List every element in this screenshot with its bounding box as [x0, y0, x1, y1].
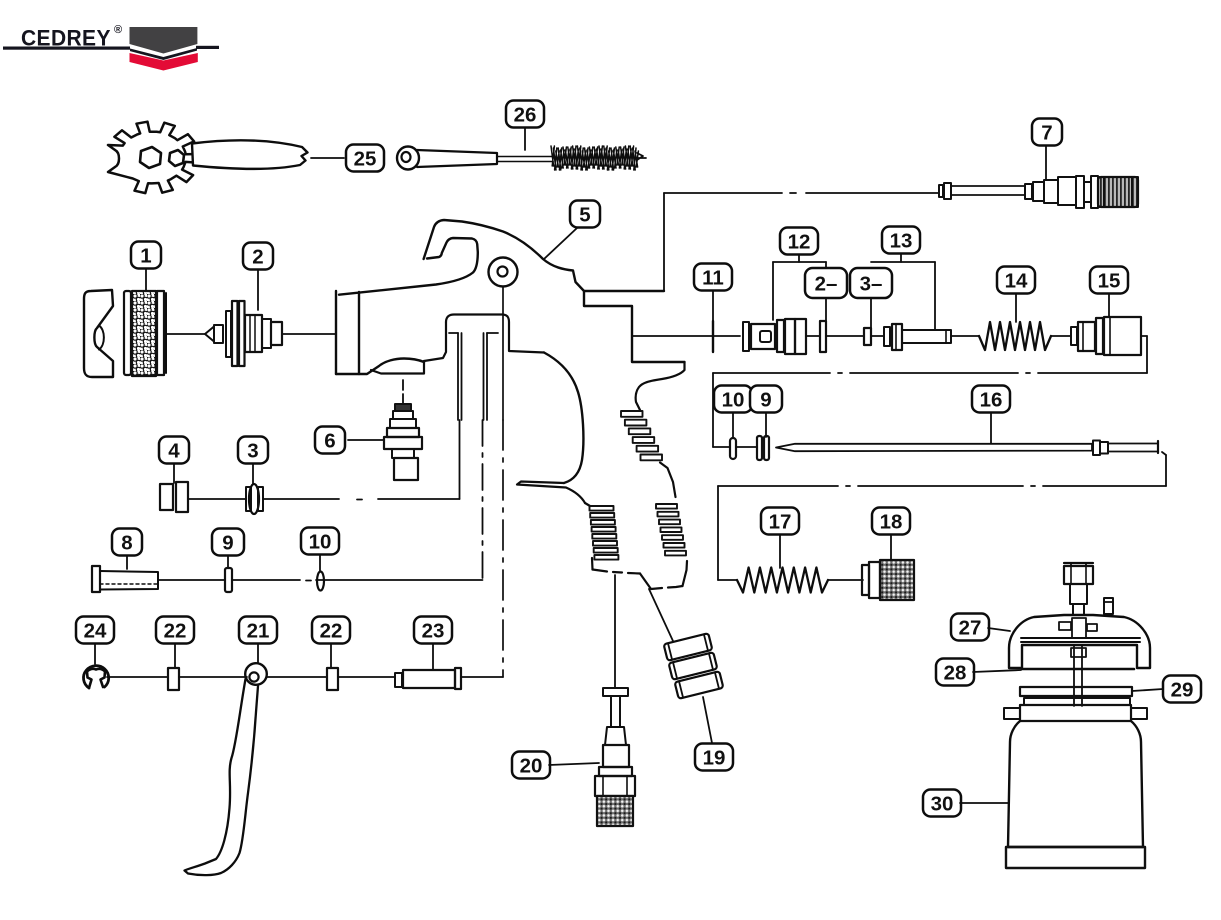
spring 17 — [737, 568, 828, 593]
label 2 — [243, 243, 273, 270]
frame from 15 down — [1141, 335, 1147, 337]
leader 20 — [549, 763, 599, 765]
svg-text:2: 2 — [252, 245, 263, 268]
label 24 — [76, 617, 114, 644]
handle back serrations upper — [621, 411, 643, 417]
wrench hex hole 2 — [169, 150, 184, 166]
handle bottom front — [593, 570, 641, 574]
svg-text:24: 24 — [84, 619, 107, 642]
svg-text:3–: 3– — [860, 272, 883, 295]
gun right stair — [584, 291, 685, 362]
screw circle marker — [489, 258, 518, 287]
svg-text:13: 13 — [890, 229, 913, 252]
handle bottom step — [640, 574, 683, 590]
dashdot frame y486 — [718, 485, 838, 487]
part 1 knurled band — [132, 291, 156, 376]
body under edge — [424, 322, 446, 361]
svg-text:2–: 2– — [815, 272, 838, 295]
brush handle eyelet — [397, 147, 419, 170]
label 1 — [131, 242, 161, 269]
svg-text:18: 18 — [880, 510, 903, 533]
part 4 washers — [160, 484, 173, 510]
needle 16 — [776, 444, 1092, 451]
logo dark chevron — [130, 27, 198, 54]
axis to part 12 — [632, 335, 740, 337]
part 1 cap ring — [124, 291, 131, 375]
label 10 — [301, 528, 339, 555]
label 16 — [972, 386, 1010, 413]
trigger guard chin — [517, 482, 585, 504]
multi-wrench tool 25 — [108, 122, 199, 193]
part 7 knurled knob — [1098, 177, 1138, 207]
label 10 — [714, 386, 752, 413]
wrench handle — [192, 140, 308, 169]
label 30 — [923, 790, 961, 817]
axis 2- to 3- — [826, 335, 864, 337]
label 27 — [951, 614, 989, 641]
part 2 collar — [262, 319, 271, 348]
part 2 hex — [271, 322, 282, 345]
svg-text:4: 4 — [168, 439, 180, 462]
svg-text:1: 1 — [140, 244, 151, 267]
label 6 — [315, 427, 345, 454]
handle front edge — [585, 503, 590, 506]
part 13 rings — [884, 327, 890, 346]
axis tube to spring — [951, 335, 979, 337]
logo underline — [3, 47, 130, 50]
part 7 rod end — [939, 185, 943, 197]
handle back serrations lower — [656, 504, 677, 509]
handle back mid edge — [660, 463, 676, 498]
part 13 tube — [902, 330, 951, 343]
barrel left cap — [335, 291, 337, 374]
leader 2 — [257, 270, 259, 310]
svg-text:20: 20 — [520, 754, 543, 777]
label 18 — [872, 508, 910, 535]
cup base — [1006, 847, 1145, 868]
label 17 — [761, 508, 799, 535]
lid center fittings — [1059, 622, 1071, 630]
leader 6 — [348, 439, 383, 441]
leader 7 — [1045, 146, 1047, 180]
svg-text:23: 23 — [422, 619, 445, 642]
svg-text:19: 19 — [703, 746, 726, 769]
left tube continues to row 3/4 — [459, 420, 461, 499]
row line — [158, 579, 225, 581]
part 19 coupler — [664, 633, 713, 661]
part 24 e-clip — [83, 666, 108, 688]
svg-text:22: 22 — [320, 619, 343, 642]
row 3/4 line — [188, 498, 246, 500]
part 9 rings — [757, 436, 762, 460]
leader 5 — [544, 228, 577, 259]
svg-text:17: 17 — [769, 510, 792, 533]
dashdot frame line y373 — [713, 372, 830, 374]
svg-text:27: 27 — [959, 616, 982, 639]
svg-text:8: 8 — [121, 531, 132, 554]
part 11 tick — [712, 321, 714, 352]
label 14 — [997, 267, 1035, 294]
logo black stripe — [130, 48, 197, 60]
part 8 rod — [92, 566, 100, 592]
svg-text:3: 3 — [247, 439, 258, 462]
row line — [713, 446, 730, 448]
label 11 — [694, 264, 732, 291]
axis part1-part2 — [167, 333, 205, 335]
part 3- disc — [864, 328, 871, 345]
wrench hex hole 1 — [140, 147, 161, 168]
axis spring to 15 — [1051, 335, 1071, 337]
svg-text:28: 28 — [944, 661, 967, 684]
leader from barrel to part 6 — [402, 380, 404, 404]
barrel bottom — [336, 359, 424, 375]
label 23 — [414, 617, 452, 644]
label 15 — [1090, 267, 1128, 294]
label 12 — [780, 228, 818, 255]
label 9 — [750, 386, 782, 413]
svg-text:9: 9 — [760, 388, 771, 411]
label 29 — [1163, 676, 1201, 703]
part 3 spool — [246, 487, 251, 511]
cup stem — [1070, 584, 1087, 604]
leader 26 — [524, 128, 526, 150]
label 7 — [1032, 119, 1062, 146]
part 18 knurled block — [880, 560, 914, 600]
cup neck with lugs — [1020, 705, 1131, 721]
part 12 rings — [777, 320, 784, 352]
axis 3- to 13 — [871, 335, 884, 337]
svg-text:10: 10 — [309, 530, 332, 553]
U channel right tube — [483, 333, 485, 420]
U channel left tube — [457, 333, 459, 420]
leader line from gun to part 7 — [664, 192, 782, 194]
part 2 threaded body — [245, 315, 262, 352]
label 3 — [238, 437, 268, 464]
svg-text:21: 21 — [247, 619, 270, 642]
svg-text:15: 15 — [1098, 269, 1121, 292]
label 22 — [312, 617, 350, 644]
part 12 packing flange — [743, 322, 749, 351]
label 28 — [936, 659, 974, 686]
part 15 body — [1104, 317, 1141, 355]
part 15 ring — [1096, 318, 1103, 354]
svg-text:25: 25 — [354, 147, 377, 170]
gun hook inner curl and barrel top edge — [339, 238, 478, 295]
part 7 rod — [951, 186, 1025, 195]
label 4 — [159, 437, 189, 464]
handle back lower edge — [683, 561, 688, 586]
part 15 cup — [1078, 322, 1095, 351]
cup body 30 — [1008, 721, 1143, 847]
logo red chevron — [130, 53, 198, 71]
label 2&#8211; — [805, 268, 847, 298]
handle top notch — [636, 362, 685, 410]
barrel pad under — [371, 361, 424, 374]
vertical leader at gun top right — [663, 193, 665, 291]
leader from circle down to trigger row — [502, 287, 504, 420]
part 1 horn retainer — [84, 290, 113, 377]
brush shaft — [497, 156, 553, 158]
gasket 29 — [1020, 687, 1132, 696]
spring 14 — [979, 322, 1051, 350]
stem line — [614, 575, 616, 688]
leader 1 — [145, 269, 147, 290]
svg-text:10: 10 — [722, 388, 745, 411]
label 5 — [570, 201, 600, 228]
leader to 25 — [311, 157, 344, 159]
part 18 cap — [862, 565, 869, 595]
part 2- disc — [820, 321, 826, 352]
lid plate — [1021, 637, 1140, 639]
part 7 spool rings — [1076, 176, 1084, 208]
label 25 — [346, 145, 384, 172]
part 7 body — [1058, 177, 1076, 205]
part 15 flange — [1071, 327, 1077, 345]
label 9 — [212, 529, 244, 556]
svg-text:30: 30 — [931, 792, 954, 815]
brush bristles — [551, 146, 638, 170]
frame needle right down — [1162, 452, 1166, 455]
svg-text:9: 9 — [222, 531, 233, 554]
part 2 tip cone — [205, 327, 214, 342]
svg-text:12: 12 — [788, 230, 811, 253]
svg-text:22: 22 — [164, 619, 187, 642]
part 20 fitting — [603, 688, 628, 696]
axis part2-barrel — [282, 333, 336, 335]
center tube — [1073, 645, 1075, 706]
axis 12 to 2- — [806, 335, 820, 337]
svg-text:11: 11 — [702, 266, 724, 289]
part 12 cup with square hole — [751, 324, 775, 349]
cup top nut — [1064, 566, 1093, 584]
gasket 28 — [1022, 668, 1134, 671]
svg-text:7: 7 — [1041, 121, 1052, 144]
part 2 flanges — [226, 311, 231, 357]
part 6 fitting — [395, 404, 411, 411]
brush handle — [417, 150, 497, 167]
label 3&#8211; — [850, 268, 892, 298]
svg-text:6: 6 — [324, 429, 335, 452]
part 20 knurled base — [597, 796, 633, 826]
label 13 — [882, 227, 920, 254]
trigger slot curve — [544, 353, 583, 484]
label 26 — [506, 101, 544, 128]
part 7 step rings — [1025, 184, 1032, 199]
rounded block top — [446, 315, 544, 353]
svg-text:29: 29 — [1171, 678, 1194, 701]
leader handle to 19 — [649, 589, 673, 641]
label 19 — [695, 744, 733, 771]
svg-text:14: 14 — [1005, 269, 1028, 292]
handle front serrations — [590, 506, 614, 511]
leader 19 — [703, 697, 712, 743]
label 20 — [512, 752, 550, 779]
svg-text:26: 26 — [514, 103, 537, 126]
right tube continues dashdot to row 8/9/10 — [482, 420, 484, 581]
svg-text:16: 16 — [980, 388, 1003, 411]
svg-text:5: 5 — [579, 203, 590, 226]
lid dome 27 — [1009, 615, 1150, 668]
label 21 — [239, 617, 277, 644]
label 22 — [156, 617, 194, 644]
gun body hook outer and head slope — [424, 220, 664, 291]
label 8 — [112, 529, 142, 556]
svg-text:®: ® — [114, 24, 122, 36]
cup rim — [1024, 698, 1130, 705]
vent nipple — [1104, 598, 1113, 614]
part 7 cylinder — [1044, 180, 1058, 203]
part 10 ring — [730, 438, 736, 459]
